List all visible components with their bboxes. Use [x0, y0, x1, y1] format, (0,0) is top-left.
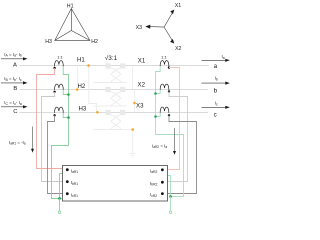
svg-text:H1: H1: [67, 3, 74, 9]
svg-text:IbR1: IbR1: [71, 180, 78, 186]
wye interconnect wire X2-X3: [134, 90, 136, 113]
svg-text:IcR2: IcR2: [150, 192, 157, 198]
input arrow phase A: [1, 58, 24, 60]
junction dot mint b: [154, 92, 157, 95]
svg-text:1:1: 1:1: [161, 54, 166, 59]
wire right mint CT-b stub: [156, 90, 161, 94]
svg-text:B: B: [13, 86, 17, 92]
delta interconnect wire H1-H3: [89, 66, 97, 113]
wire CT-a secondary (pink): [167, 68, 179, 170]
CT right C polarity dot: [168, 114, 170, 116]
svg-text:X2: X2: [175, 46, 182, 52]
svg-text:X1: X1: [138, 57, 146, 64]
svg-text:C: C: [13, 109, 18, 115]
wire phase B primary: [20, 89, 208, 91]
current arrow IaR1 (down): [32, 127, 34, 150]
wire left green CT-B stub: [63, 90, 68, 95]
CT coil right A: [160, 61, 169, 67]
junction dot green B: [67, 93, 70, 96]
secondary link line unit C: [94, 129, 127, 131]
svg-text:Ic: Ic: [215, 101, 218, 107]
wire left green CT-C stub: [63, 113, 68, 118]
transformer unit row C: [105, 110, 125, 129]
svg-text:X1: X1: [175, 3, 182, 9]
svg-text:Ib: Ib: [215, 76, 218, 82]
wye arrowhead to X1: [170, 10, 174, 15]
node X mid (orange dot): [133, 102, 136, 105]
relay terminal dot right 3: [161, 192, 164, 195]
svg-text:H3: H3: [45, 39, 52, 45]
delta interconnect wire H1-H2: [77, 66, 79, 90]
secondary link line unit B: [94, 105, 127, 107]
current arrow IaR2 (down): [174, 128, 176, 151]
svg-text:a: a: [214, 63, 218, 70]
relay box (87 differential relay): [63, 166, 168, 202]
wye interconnect wire X1-X2: [132, 66, 134, 90]
output arrow phase b: [202, 82, 227, 84]
relay terminal dot right 1: [161, 168, 164, 171]
output arrow phase a: [202, 59, 227, 61]
ground circle left: [58, 211, 60, 213]
input arrow phase C: [1, 106, 24, 108]
junction dot mint c: [154, 115, 157, 118]
wire CT-A secondary (salmon): [37, 68, 63, 169]
svg-text:IaR2 = Ia: IaR2 = Ia: [152, 143, 167, 149]
svg-text:IC = Ic- Ia: IC = Ic- Ia: [4, 100, 22, 106]
wire phase C primary: [20, 112, 208, 114]
delta winding symbol (H side): [55, 9, 90, 41]
svg-text:H1: H1: [77, 57, 85, 64]
wye arrowhead to X3: [145, 25, 150, 29]
wire right mint CT-c stub: [156, 113, 161, 117]
svg-text:IaR1: IaR1: [71, 168, 78, 174]
ground symbol (earth): [130, 154, 136, 158]
svg-text:IB = Ib- Ic: IB = Ib- Ic: [4, 76, 22, 82]
secondary link line unit A: [94, 82, 127, 84]
svg-text:Ia: Ia: [222, 54, 225, 60]
CT right B polarity dot: [168, 90, 170, 92]
svg-text:b: b: [214, 87, 218, 94]
svg-text:X3: X3: [136, 25, 143, 31]
transformer unit row A: [105, 63, 125, 82]
wire right mint branch into box: [167, 176, 170, 197]
svg-text:A: A: [13, 62, 17, 68]
svg-text:X3: X3: [136, 103, 144, 110]
output arrow phase c: [202, 106, 227, 108]
ground circle right: [169, 211, 171, 213]
svg-text:c: c: [214, 111, 217, 118]
svg-text:H2: H2: [78, 83, 86, 90]
wire CT-C secondary (dark gray): [48, 116, 63, 194]
node H1 (orange dot): [87, 64, 90, 67]
node X neutral (orange dot): [131, 128, 134, 131]
wire left green branch into box: [60, 174, 63, 199]
wire phase A primary: [20, 65, 209, 67]
junction dot mint bottom right: [169, 195, 172, 198]
relay terminal dot left 2: [66, 180, 69, 183]
transformer unit row B: [105, 87, 125, 107]
CT left B polarity dot: [53, 91, 55, 93]
svg-text:IaR1 = -Ia: IaR1 = -Ia: [9, 140, 26, 146]
svg-text:H3: H3: [79, 105, 87, 112]
svg-text:IbR2: IbR2: [150, 181, 157, 187]
CT left A polarity dot: [53, 67, 55, 69]
svg-text:√3:1: √3:1: [105, 54, 118, 62]
wire CT-c secondary (dark gray): [167, 115, 196, 193]
svg-text:H2: H2: [91, 39, 98, 45]
CT left C polarity dot: [53, 114, 55, 116]
CT coil left C: [55, 107, 64, 113]
wire right common (mint green): [156, 66, 184, 196]
CT coil left B: [55, 84, 64, 90]
junction dot green C: [67, 116, 70, 119]
wye arrowhead to X2: [170, 39, 174, 44]
wire CT-b secondary (light gray): [167, 92, 187, 182]
input arrow phase B: [1, 82, 24, 84]
node H2 (orange dot): [76, 88, 79, 91]
svg-text:IcR1: IcR1: [71, 192, 78, 198]
CT right A polarity dot: [168, 66, 170, 68]
relay terminal dot right 2: [161, 181, 164, 184]
wye neutral wire to ground: [127, 130, 133, 154]
svg-text:1:1: 1:1: [57, 54, 62, 59]
wire left green ground drop: [59, 199, 61, 211]
CT coil right C: [160, 107, 169, 113]
junction dot green bottom left: [58, 197, 61, 200]
CT coil left A: [55, 61, 64, 67]
wire left common (green): [52, 66, 69, 198]
relay terminal dot left 1: [66, 168, 69, 171]
CT coil right B: [160, 84, 169, 90]
svg-text:IaR2: IaR2: [150, 168, 157, 174]
relay terminal dot left 3: [66, 192, 69, 195]
svg-text:X2: X2: [138, 82, 146, 89]
middle transformer bank (light gray): [78, 63, 136, 157]
wire right mint ground drop: [170, 197, 172, 211]
wye winding symbol (X side): [149, 12, 172, 41]
svg-text:IA = Ia- Ib: IA = Ia- Ib: [4, 52, 22, 58]
wire CT-B secondary (light gray): [42, 92, 63, 182]
node H3 (orange dot): [96, 111, 99, 114]
